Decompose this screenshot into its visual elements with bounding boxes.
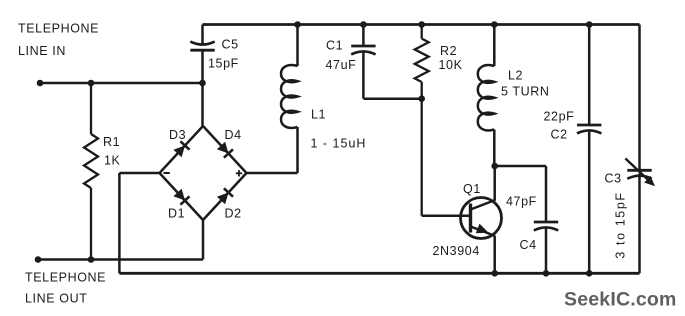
svg-text:C1: C1 — [326, 39, 343, 53]
svg-text:LINE IN: LINE IN — [18, 44, 66, 58]
svg-text:D4: D4 — [225, 128, 242, 142]
svg-text:D3: D3 — [169, 128, 186, 142]
svg-text:L1: L1 — [311, 108, 326, 122]
svg-text:LINE OUT: LINE OUT — [25, 292, 87, 306]
svg-text:R1: R1 — [103, 135, 120, 149]
svg-text:1K: 1K — [104, 154, 121, 168]
svg-text:Q1: Q1 — [463, 182, 481, 196]
svg-text:10K: 10K — [439, 58, 463, 72]
svg-text:TELEPHONE: TELEPHONE — [18, 22, 99, 36]
svg-text:2N3904: 2N3904 — [433, 244, 480, 258]
svg-text:C4: C4 — [520, 238, 537, 252]
svg-text:47uF: 47uF — [326, 58, 357, 72]
svg-text:R2: R2 — [440, 44, 457, 58]
svg-text:TELEPHONE: TELEPHONE — [25, 271, 106, 285]
svg-text:22pF: 22pF — [544, 110, 575, 124]
svg-text:C3: C3 — [605, 172, 622, 186]
svg-text:C2: C2 — [551, 128, 568, 142]
svg-text:5 TURN: 5 TURN — [501, 85, 550, 99]
svg-text:D1: D1 — [168, 207, 185, 221]
svg-text:C5: C5 — [222, 38, 239, 52]
svg-text:D2: D2 — [225, 207, 242, 221]
svg-text:47pF: 47pF — [506, 195, 537, 209]
svg-text:1 - 15uH: 1 - 15uH — [311, 137, 367, 151]
svg-text:L2: L2 — [508, 69, 523, 83]
svg-text:3 to 15pF: 3 to 15pF — [614, 191, 628, 258]
svg-text:15pF: 15pF — [208, 57, 239, 71]
svg-text:SeekIC.com: SeekIC.com — [564, 289, 677, 311]
